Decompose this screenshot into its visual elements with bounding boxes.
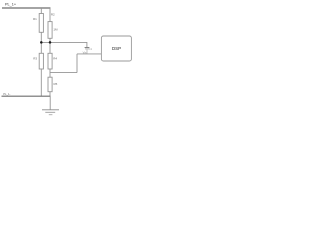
wire tap2 riser bbox=[76, 54, 78, 73]
svg-text:R5: R5 bbox=[54, 82, 58, 86]
wire cap drop bbox=[86, 42, 88, 47]
ground symbol bar 1 bbox=[42, 109, 59, 111]
wire to DSP input bbox=[77, 53, 101, 55]
wire left column upper bbox=[40, 8, 42, 14]
svg-text:R1: R1 bbox=[33, 17, 37, 21]
wire right column upper bbox=[49, 8, 51, 22]
svg-text:R4: R4 bbox=[53, 57, 57, 61]
svg-text:PL_1-: PL_1- bbox=[3, 92, 10, 96]
wire R1 bottom bbox=[40, 32, 42, 42]
svg-text:DSP: DSP bbox=[112, 46, 121, 51]
resistor R2 bbox=[48, 22, 52, 39]
resistor R1 bbox=[39, 14, 43, 33]
wire R2 bottom bbox=[49, 38, 51, 42]
IC U1 DSP box bbox=[101, 36, 131, 61]
wire right column mid bbox=[49, 42, 51, 53]
ground symbol bar 2 bbox=[45, 111, 55, 113]
svg-text:Vin: Vin bbox=[83, 51, 87, 55]
junction node 1 left dot bbox=[40, 41, 43, 44]
resistor R3 bbox=[39, 53, 43, 69]
wire ground lead bbox=[49, 96, 51, 109]
capacitor C1 lead bbox=[86, 49, 88, 54]
wire left column mid bbox=[40, 42, 42, 53]
svg-text:R2: R2 bbox=[51, 12, 55, 16]
wire tap node2 bbox=[50, 72, 77, 74]
wire tap node1 bbox=[41, 41, 87, 43]
ground symbol bar 3 bbox=[49, 114, 53, 116]
wire R5 bottom bbox=[49, 92, 51, 97]
capacitor C1 plate top bbox=[85, 47, 90, 49]
wire left column lower bbox=[40, 69, 42, 96]
wire right column to tap2 bbox=[49, 69, 51, 78]
resistor R4 bbox=[48, 53, 52, 69]
wire top rail bbox=[2, 7, 50, 9]
junction node 1 right dot bbox=[49, 41, 52, 44]
svg-text:PL_1+: PL_1+ bbox=[5, 2, 17, 6]
svg-text:1M: 1M bbox=[53, 28, 58, 32]
svg-text:R3: R3 bbox=[33, 57, 37, 61]
capacitor C1 plate bottom bbox=[85, 48, 89, 50]
resistor R5 bbox=[48, 77, 52, 92]
wire bottom rail bbox=[2, 95, 51, 97]
